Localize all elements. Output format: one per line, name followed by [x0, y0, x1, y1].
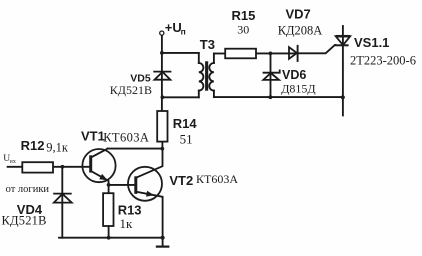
svg-text:VD7: VD7 [286, 7, 311, 22]
svg-text:1к: 1к [120, 216, 134, 231]
svg-text:КД521В: КД521В [110, 83, 152, 97]
svg-text:R14: R14 [173, 116, 198, 131]
svg-text:от логики: от логики [6, 184, 50, 195]
svg-text:Т3: Т3 [200, 37, 215, 52]
svg-text:VD6: VD6 [282, 68, 306, 82]
svg-text:R15: R15 [232, 8, 256, 23]
svg-text:Д815Д: Д815Д [281, 82, 315, 96]
svg-text:VT1: VT1 [81, 129, 105, 144]
svg-text:вх: вх [10, 159, 16, 165]
svg-text:КТ603А: КТ603А [196, 172, 238, 186]
svg-text:R12: R12 [21, 138, 45, 153]
svg-text:30: 30 [237, 22, 249, 36]
svg-text:КД208А: КД208А [278, 24, 323, 38]
svg-text:КД521В: КД521В [2, 213, 47, 227]
svg-text:VT2: VT2 [169, 173, 193, 188]
svg-text:9,1к: 9,1к [46, 140, 69, 154]
svg-text:КТ603А: КТ603А [103, 130, 149, 144]
svg-text:VS1.1: VS1.1 [354, 35, 389, 50]
svg-text:п: п [181, 26, 186, 36]
svg-text:51: 51 [180, 131, 193, 146]
svg-text:+U: +U [165, 20, 182, 35]
svg-text:2Т223-200-6: 2Т223-200-6 [350, 53, 416, 67]
